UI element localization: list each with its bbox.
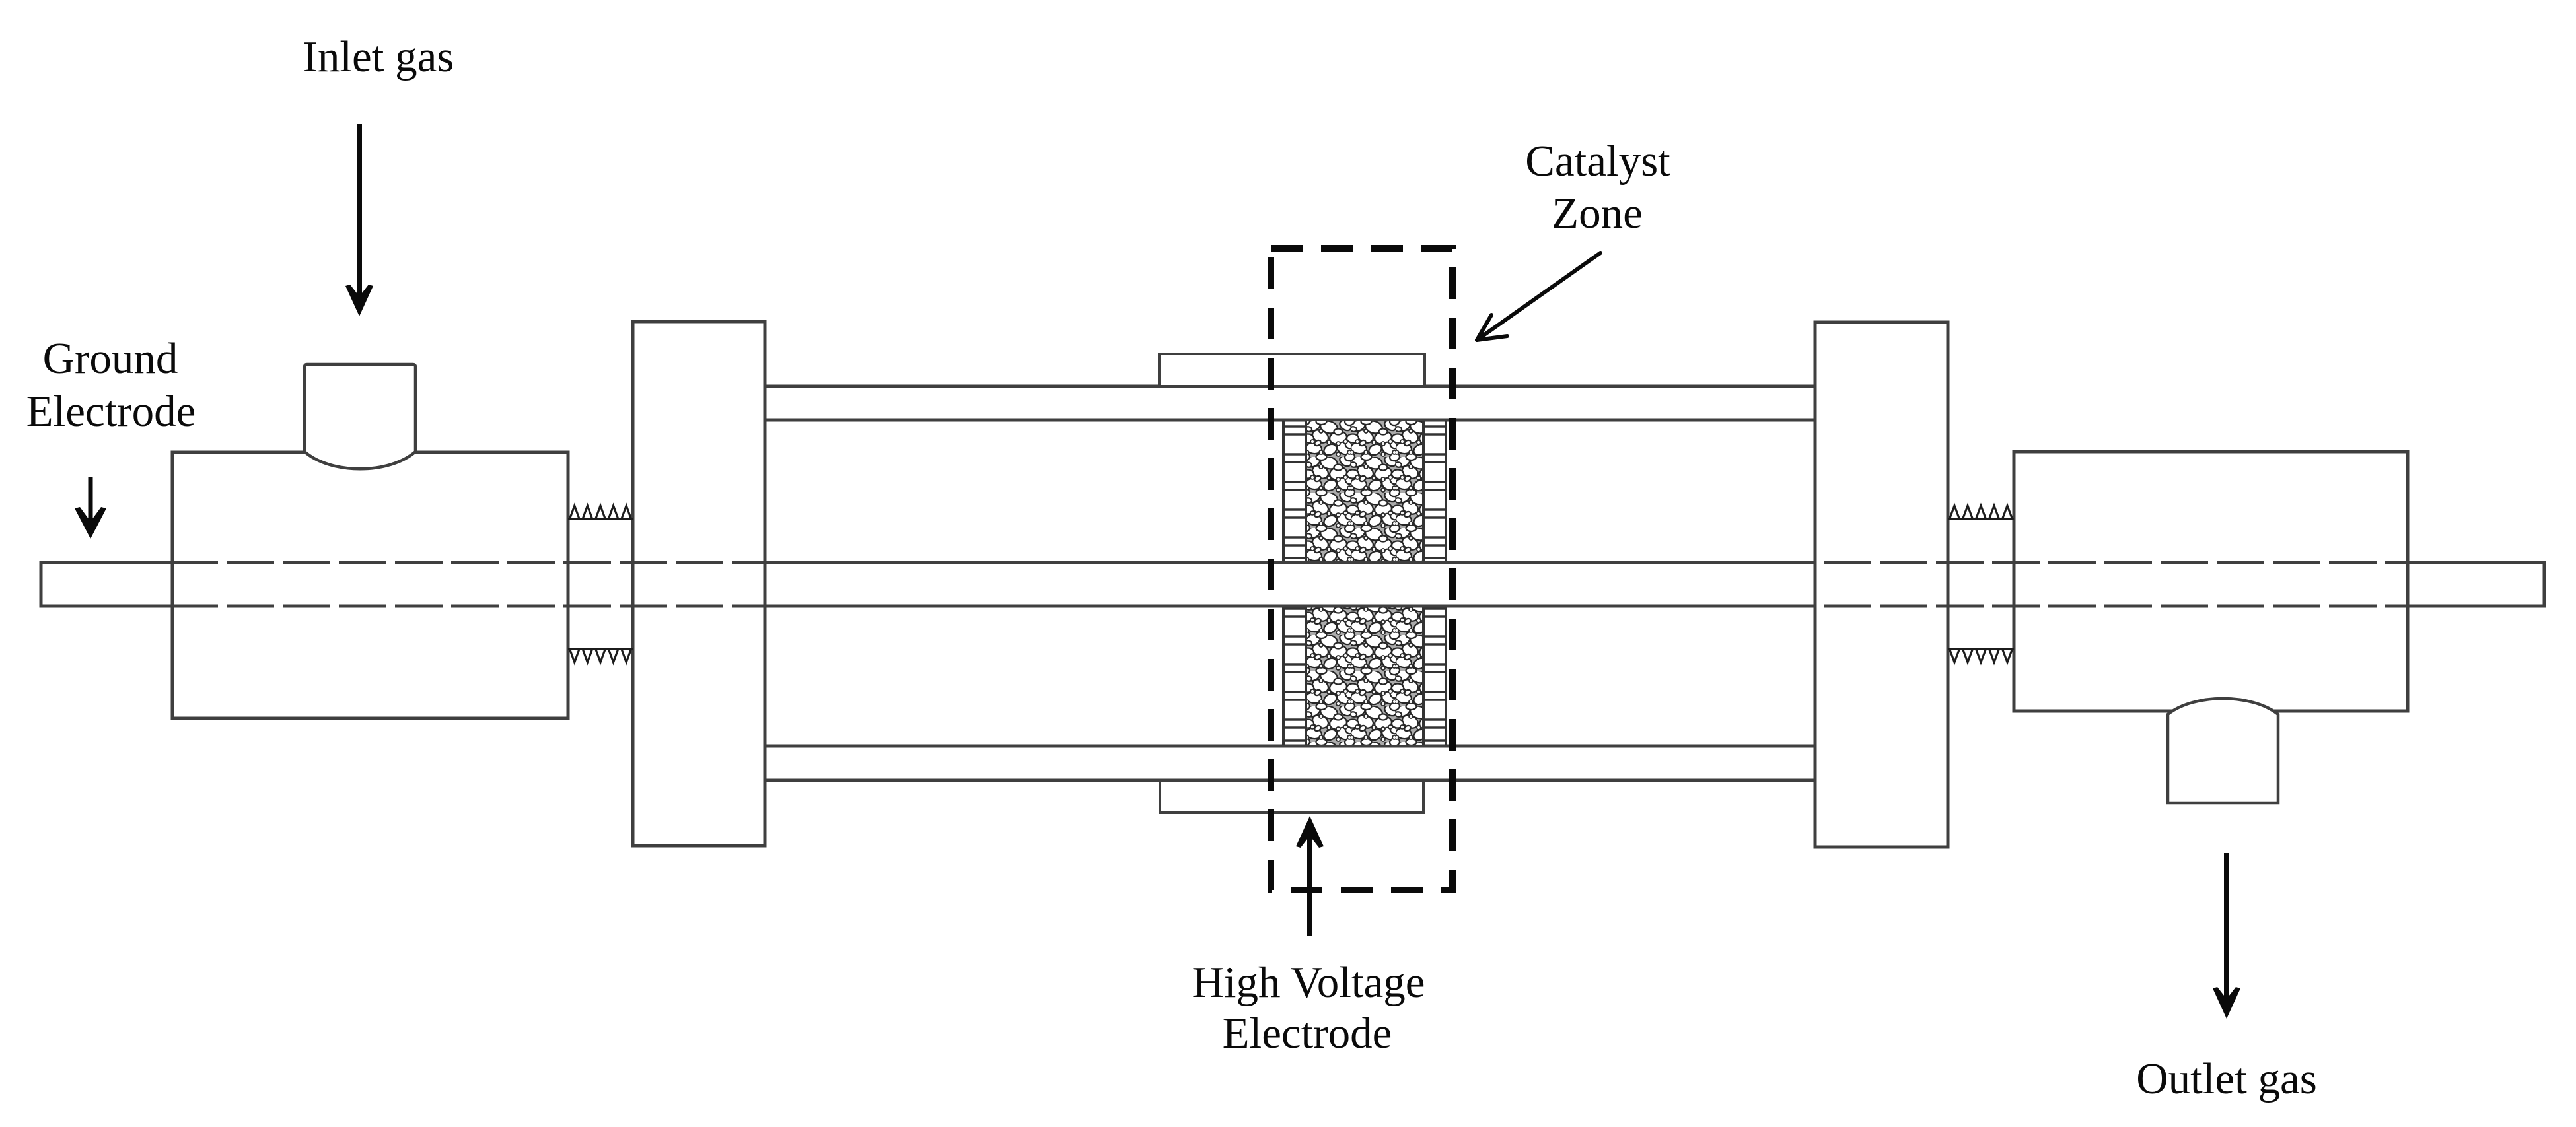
high voltage electrode arrow bbox=[1307, 826, 1312, 936]
svg-text:Catalyst: Catalyst bbox=[1525, 137, 1670, 186]
label: Catalyst Zone bbox=[1525, 137, 1670, 238]
ground electrode arrow bbox=[89, 477, 93, 529]
svg-text:High Voltage: High Voltage bbox=[1192, 958, 1425, 1007]
svg-text:Electrode: Electrode bbox=[1223, 1009, 1392, 1058]
right threaded joint bottom bbox=[1948, 649, 2014, 662]
svg-text:Outlet gas: Outlet gas bbox=[2136, 1054, 2317, 1103]
outlet block bbox=[2014, 452, 2408, 711]
inner electrode rod visible segment inside tube bbox=[765, 563, 1815, 606]
inner electrode rod hidden dashed segment through right flange and block bbox=[1815, 563, 2408, 606]
svg-text:Zone: Zone bbox=[1552, 189, 1643, 238]
ground electrode block bbox=[172, 452, 568, 718]
high voltage electrode bottom plate bbox=[1160, 780, 1423, 813]
catalyst zone dashed boundary bbox=[1271, 248, 1452, 890]
high voltage electrode top plate bbox=[1159, 354, 1425, 386]
catalyst bed lower bbox=[1306, 606, 1423, 745]
left threaded joint bottom bbox=[568, 649, 633, 662]
outer tube bottom wall outer line bbox=[765, 779, 1815, 782]
inner electrode rod solid left segment bbox=[41, 561, 218, 608]
svg-text:Electrode: Electrode bbox=[26, 387, 196, 436]
outlet gas port bbox=[2168, 699, 2278, 803]
inner electrode rod solid right segment bbox=[2408, 561, 2544, 608]
svg-text:Inlet gas: Inlet gas bbox=[303, 32, 454, 81]
label: High Voltage Electrode bbox=[1192, 958, 1425, 1058]
outer tube top wall outer line bbox=[765, 385, 1815, 388]
catalyst zone arrow bbox=[1477, 253, 1600, 340]
catalyst retainer mesh lower bbox=[1283, 606, 1446, 745]
inlet gas arrow bbox=[357, 124, 362, 306]
outer tube top wall inner line bbox=[765, 419, 1815, 422]
right flange bbox=[1815, 322, 1948, 847]
right threaded joint top bbox=[1948, 506, 2014, 519]
label: Ground Electrode bbox=[26, 334, 196, 436]
outlet gas arrow bbox=[2224, 853, 2229, 1009]
left threaded joint top bbox=[568, 506, 633, 519]
left flange bbox=[633, 322, 765, 846]
outer tube bottom wall inner line bbox=[765, 745, 1815, 748]
inlet gas port bbox=[304, 364, 415, 469]
catalyst retainer mesh upper bbox=[1283, 421, 1446, 561]
inner electrode rod hidden dashed segment through left block and flange bbox=[218, 563, 765, 606]
svg-text:Ground: Ground bbox=[43, 334, 178, 383]
catalyst bed upper bbox=[1306, 421, 1423, 561]
